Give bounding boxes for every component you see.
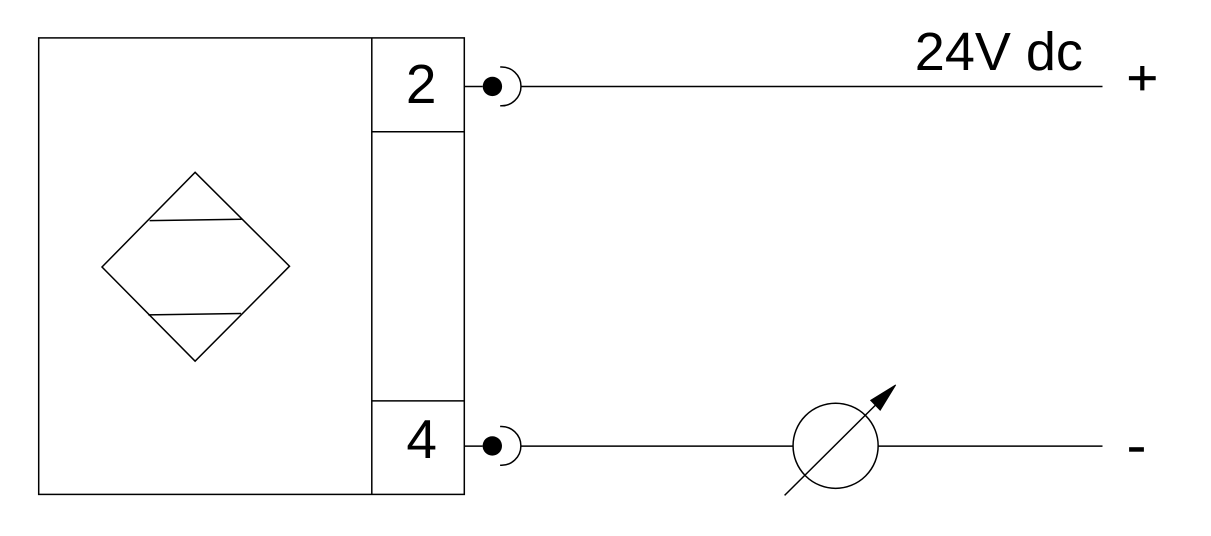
connector socket arc top bbox=[500, 67, 521, 106]
terminal column divider bbox=[371, 38, 373, 495]
wire pin4 to plug bbox=[464, 445, 482, 447]
pin 4 cell divider bbox=[372, 400, 465, 402]
wire plug to meter bbox=[521, 445, 793, 447]
meter arrow shaft bbox=[785, 402, 879, 495]
wire meter to - terminal bbox=[878, 445, 1102, 447]
connector pin dot top bbox=[483, 77, 502, 96]
wire plug to + terminal bbox=[521, 86, 1103, 88]
wire pin2 to plug bbox=[464, 86, 482, 88]
meter arrow head bbox=[871, 385, 896, 410]
sensor body outline bbox=[39, 38, 465, 495]
connector socket arc bottom bbox=[500, 427, 521, 466]
connector pin dot bottom bbox=[483, 436, 502, 455]
sensor diamond symbol bbox=[102, 172, 290, 361]
+ terminal label bbox=[1129, 66, 1156, 90]
pin 2 cell divider bbox=[372, 131, 465, 133]
diamond upper chord bbox=[150, 219, 242, 220]
meter M1 circle bbox=[793, 403, 878, 488]
svg-text:24V dc: 24V dc bbox=[915, 22, 1083, 82]
- terminal label bbox=[1129, 447, 1144, 452]
svg-text:4: 4 bbox=[406, 408, 437, 470]
diamond lower chord bbox=[148, 314, 241, 315]
svg-text:2: 2 bbox=[406, 53, 437, 115]
